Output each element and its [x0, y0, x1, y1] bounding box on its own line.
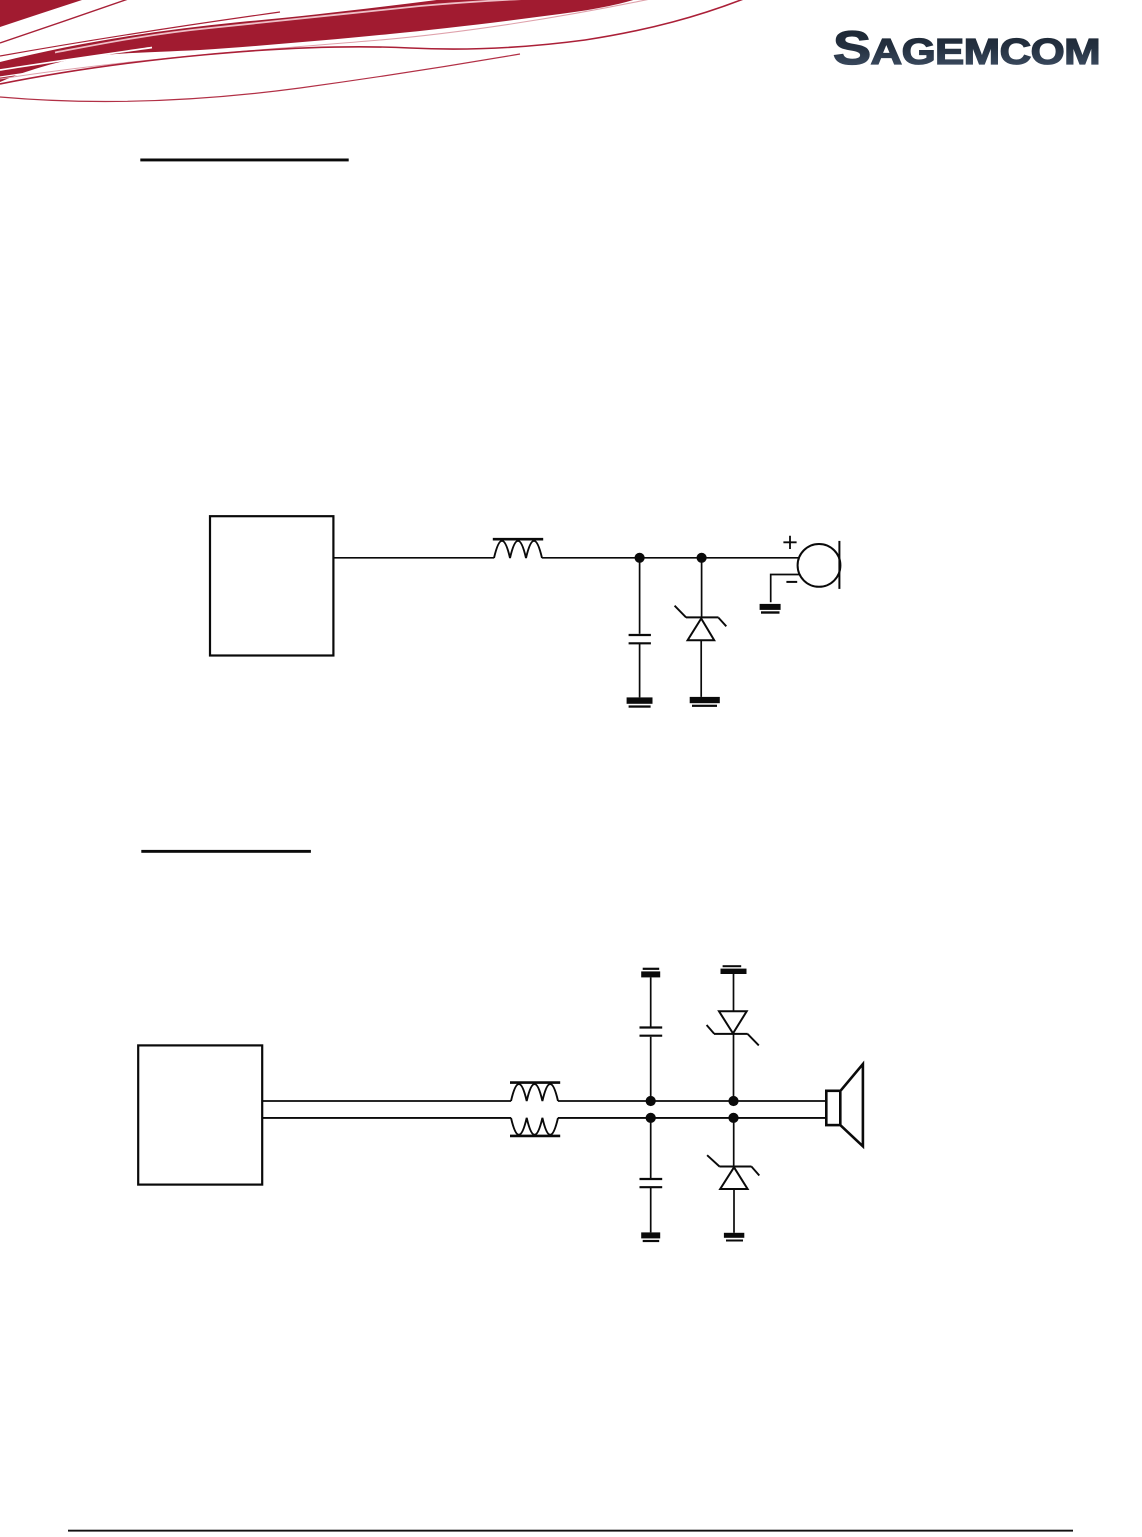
svg-text:SAGEMCOM: SAGEMCOM [833, 21, 1100, 74]
